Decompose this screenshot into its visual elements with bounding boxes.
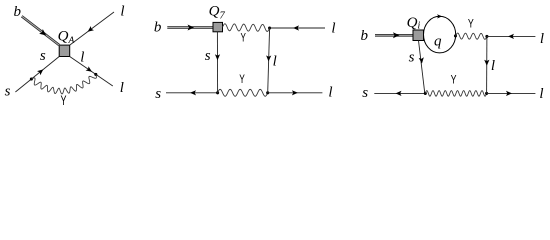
svg-text:b: b: [13, 4, 21, 20]
outgoing anti-lepton line top-right diagram 1: [70, 12, 114, 45]
photon from Q7 box to lepton line (top gamma, diagram 2): [223, 24, 270, 32]
svg-text:Y: Y: [451, 72, 457, 86]
svg-text:Y: Y: [61, 93, 67, 108]
label l internal (diagram 2): [273, 53, 277, 69]
svg-text:Q7: Q7: [209, 3, 226, 21]
arrow on b line diagram 3: [393, 32, 400, 38]
arrow on s propagator (diagram 3): [419, 57, 424, 63]
label Q_A: [58, 29, 75, 46]
svg-text:Y: Y: [468, 16, 474, 30]
arrow on lepton propagator (diagram 3): [484, 60, 489, 66]
label l external bottom-right (diagram 2): [328, 84, 332, 100]
label gamma top (diagram 3): [468, 16, 474, 30]
photon vertex dot on s line (diagram 1): [30, 77, 33, 80]
svg-text:s: s: [362, 85, 368, 101]
arrow on external s line (diagram 2): [190, 90, 196, 95]
external lepton line bottom-right (diagram 3): [487, 92, 536, 94]
arrow on s propagator (diagram 2): [215, 54, 220, 60]
s quark propagator (diagram 3): [419, 41, 425, 94]
arrow on external s line (diagram 3): [396, 91, 402, 96]
label l external top-right (diagram 2): [331, 20, 335, 36]
label Q_i: [407, 15, 421, 32]
vertex dot bottom-left wavy start (diagram 2): [216, 91, 219, 94]
label Q_7: [209, 3, 226, 21]
svg-text:l: l: [80, 50, 84, 66]
operator box Q_7 (diagram 2): [213, 22, 223, 31]
svg-text:l: l: [120, 4, 124, 20]
external lepton line bottom-right (diagram 2): [268, 92, 323, 94]
label s external (diagram 2): [155, 86, 161, 102]
arrow on b line diagram 2: [188, 25, 195, 31]
external s line bottom-left (diagram 3): [374, 92, 425, 94]
label b (diagram 2): [154, 20, 162, 36]
external s line bottom-left (diagram 2): [166, 92, 218, 94]
label s internal (diagram 3): [409, 50, 415, 66]
svg-text:q: q: [434, 34, 442, 50]
label b (diagram 3): [360, 28, 368, 44]
four-fermion operator box Q_A (diagram 1): [59, 45, 69, 56]
label l external bottom-right (diagram 3): [539, 86, 543, 102]
svg-text:l: l: [540, 31, 544, 47]
label s external (diagram 3): [362, 85, 368, 101]
label gamma top (diagram 2): [241, 31, 246, 45]
svg-text:s: s: [5, 84, 11, 100]
incoming b quark double line diagram 2: [167, 27, 213, 29]
svg-text:Qi: Qi: [407, 15, 421, 32]
s quark propagator vertical (diagram 2): [216, 32, 218, 93]
vertex dot top-right (diagram 3): [485, 35, 488, 38]
label l internal (diagram 3): [491, 58, 495, 74]
arrow on quark loop: [437, 14, 442, 18]
label gamma bottom (diagram 2): [239, 72, 245, 86]
svg-text:Y: Y: [239, 72, 245, 86]
arrow on top-right lepton line: [88, 26, 94, 32]
svg-text:s: s: [409, 50, 415, 66]
svg-text:s: s: [155, 86, 161, 102]
lepton propagator vertical (diagram 3): [486, 36, 488, 93]
photon bottom (diagram 2): [218, 89, 268, 96]
svg-text:l: l: [328, 84, 332, 100]
quark loop (diagram 3): [424, 16, 456, 53]
arrow on top-right lepton (diagram 2): [293, 25, 299, 30]
photon vertex dot on lepton line (diagram 1): [94, 73, 97, 76]
label l external bottom-right (diagram 1): [120, 80, 124, 96]
vertex dot on loop right (diagram 3): [454, 34, 457, 37]
svg-text:l: l: [331, 20, 335, 36]
svg-text:l: l: [491, 58, 495, 74]
label gamma bottom (diagram 3): [451, 72, 457, 86]
photon arc gamma (diagram 1): [31, 74, 96, 94]
s quark line bottom-left diagram 1: [15, 57, 59, 93]
photon bottom (diagram 3): [425, 91, 486, 97]
arrow on bottom-right lepton (diagram 2): [292, 90, 298, 95]
arrow on top-right lepton (diagram 3): [508, 34, 514, 39]
vertex dot bottom-right (diagram 3): [485, 92, 488, 95]
arrow on bottom-right lepton line diagram 1: [86, 66, 92, 72]
external lepton line top-right (diagram 2): [270, 27, 325, 29]
label s internal (diagram 2): [205, 48, 211, 64]
svg-text:l: l: [120, 80, 124, 96]
label s internal (diagram 1): [40, 48, 46, 64]
svg-text:s: s: [205, 48, 211, 64]
vertex dot bottom-right (diagram 2): [266, 91, 269, 94]
svg-text:s: s: [40, 48, 46, 64]
incoming b quark double line diagram 3: [375, 34, 413, 36]
arrow on lepton propagator (diagram 2): [266, 55, 271, 61]
arrow on b line diagram 1: [39, 29, 46, 35]
photon from loop to lepton line (top gamma, diagram 3): [456, 33, 487, 39]
svg-text:l: l: [273, 53, 277, 69]
svg-text:l: l: [539, 86, 543, 102]
label l top-right (diagram 1): [120, 4, 124, 20]
label l internal (diagram 1): [80, 50, 84, 66]
label l external top-right (diagram 3): [540, 31, 544, 47]
external lepton line top-right (diagram 3): [487, 35, 536, 37]
svg-text:b: b: [154, 20, 162, 36]
label s external (diagram 1): [5, 84, 11, 100]
lepton propagator vertical (diagram 2): [268, 28, 270, 93]
label gamma (diagram 1): [61, 93, 67, 108]
label b (diagram 1): [13, 4, 21, 20]
arrow on s line diagram 1: [37, 69, 43, 75]
vertex dot bottom-left (diagram 3): [424, 92, 427, 95]
lepton line bottom-right diagram 1: [70, 57, 113, 87]
vertex dot top-right (diagram 2): [268, 26, 271, 29]
svg-text:b: b: [360, 28, 368, 44]
incoming b quark (double line) diagram 1: [21, 15, 60, 46]
operator box Q_i (diagram 3): [413, 30, 424, 41]
svg-text:Y: Y: [241, 31, 246, 45]
label q inside loop: [434, 34, 442, 50]
arrow on bottom-right lepton (diagram 3): [506, 91, 512, 96]
